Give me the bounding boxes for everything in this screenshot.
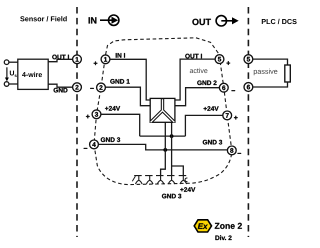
label +24V left xyxy=(105,106,120,111)
label +24V right xyxy=(204,106,219,111)
plus sign terminal 5 xyxy=(227,61,231,65)
terminal 6 xyxy=(219,83,228,92)
plus sign terminal 3 xyxy=(86,115,90,119)
label +24V bottom xyxy=(180,187,195,192)
wire load to PLC terminal 6 xyxy=(253,82,288,87)
bus connector fork 5 xyxy=(179,176,188,185)
outline dash at fork 1 xyxy=(132,176,135,181)
bus connector fork 3 xyxy=(156,176,164,185)
OUT port symbol xyxy=(192,16,238,26)
supply terminal bottom (open circle) xyxy=(4,82,9,87)
bus connector fork 1 xyxy=(134,176,142,185)
wire +24V right: terminal 7 to 24V bus xyxy=(185,115,222,136)
label passive xyxy=(254,69,278,76)
terminal 7 xyxy=(223,111,232,120)
plus sign terminal 1 xyxy=(94,62,98,66)
isolator supply line +24V (right of pair) xyxy=(171,122,173,175)
minus sign terminal 2 xyxy=(90,87,94,90)
label Zone 2 xyxy=(215,223,242,229)
label GND 3 right xyxy=(203,140,222,145)
PLC terminal 6 xyxy=(244,83,253,92)
wire OUT I: isolator to terminal 5 xyxy=(175,59,215,100)
wire GND 2: isolator to terminal 6 xyxy=(175,88,220,106)
label Div. 2 xyxy=(215,235,231,240)
bus connector fork 4 xyxy=(167,176,175,185)
PLC terminal 5 xyxy=(244,55,253,64)
wire 4-wire OUT I to terminal 1 xyxy=(48,59,72,61)
label PLC / DCS xyxy=(262,19,297,24)
terminal 8 xyxy=(227,146,236,155)
label GND 1 xyxy=(110,79,129,84)
minus sign terminal 4 xyxy=(84,147,88,150)
wire GND 3 bus: terminal 4 to terminal 8 xyxy=(98,144,227,150)
field terminal 2 xyxy=(73,83,82,92)
wire IN I: terminal 1 to isolator xyxy=(110,59,150,100)
minus sign terminal 8 xyxy=(238,152,242,155)
plus sign terminal 7 xyxy=(234,116,238,120)
isolation transformer U1 xyxy=(150,98,175,122)
wire PLC terminal 5 to load xyxy=(253,59,288,65)
separator dashed line left (field boundary) xyxy=(76,7,78,237)
wire +24V branch to bus connector xyxy=(172,166,184,176)
wire supply top to box xyxy=(9,61,18,63)
label active xyxy=(190,68,208,73)
Us voltage arrow xyxy=(5,67,17,81)
wire GND 1: terminal 2 to isolator xyxy=(105,87,150,106)
label OUT I inner xyxy=(185,54,202,59)
supply terminal top (open circle) xyxy=(4,60,9,65)
Ex hexagon logo xyxy=(194,220,211,232)
label GND 3 bottom xyxy=(162,194,181,199)
separator dashed line right (PLC boundary) xyxy=(247,7,249,237)
label GND (field) xyxy=(54,88,68,93)
bus connector fork 2 xyxy=(145,176,153,185)
terminal 2 xyxy=(97,83,106,92)
isolator supply line GND3 (left of pair) xyxy=(161,122,166,175)
junction GND 3 bus to isolator xyxy=(163,148,167,152)
terminal 4 xyxy=(90,140,99,149)
label Sensor / Field xyxy=(20,16,67,21)
label GND 2 xyxy=(197,80,216,85)
minus sign terminal 6 xyxy=(232,89,236,92)
terminal 1 xyxy=(101,55,110,64)
wire +24V left: terminal 3 to 24V bus xyxy=(101,114,140,136)
4-wire transmitter box xyxy=(18,59,48,89)
junction +24V bus to isolator supply xyxy=(170,134,174,138)
load resistor xyxy=(285,65,291,82)
field terminal 1 xyxy=(73,55,82,64)
label OUT I (field) xyxy=(52,55,69,60)
wire +24V bus xyxy=(140,135,186,137)
terminal 5 xyxy=(215,55,224,64)
IN port symbol xyxy=(89,15,119,25)
wire supply bottom to box xyxy=(9,83,18,85)
label GND 3 left xyxy=(101,137,120,142)
terminal 3 xyxy=(92,110,101,119)
label IN I xyxy=(116,53,125,57)
device dashed outline xyxy=(94,38,232,185)
wire 4-wire GND to terminal 2 xyxy=(48,84,72,87)
